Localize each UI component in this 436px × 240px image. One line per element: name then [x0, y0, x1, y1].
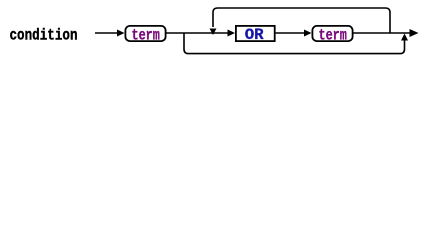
wire: top repeat loop back over OR term [213, 8, 390, 33]
wire: main line from OR box to term2 with arrowhead [276, 30, 312, 37]
junction: loop down-arrowhead onto main line before OR [210, 29, 217, 36]
svg-text:term: term [131, 26, 160, 44]
wire: main line from term1 to OR box with arrowhead [167, 30, 236, 37]
svg-text:term: term [318, 26, 347, 44]
junction: bypass up-arrowhead into main line [401, 34, 408, 41]
svg-text:condition: condition [10, 26, 78, 44]
svg-text:OR: OR [245, 26, 264, 44]
node term (second term box) [312, 26, 352, 45]
wire: bottom bypass (skip OR term) [184, 33, 405, 54]
node OR (keyword box) [236, 26, 275, 44]
wire: entry arrow into first term [95, 30, 125, 37]
node term (first term box) [125, 26, 165, 45]
wire: main exit line from term2 to end arrow [354, 29, 419, 37]
